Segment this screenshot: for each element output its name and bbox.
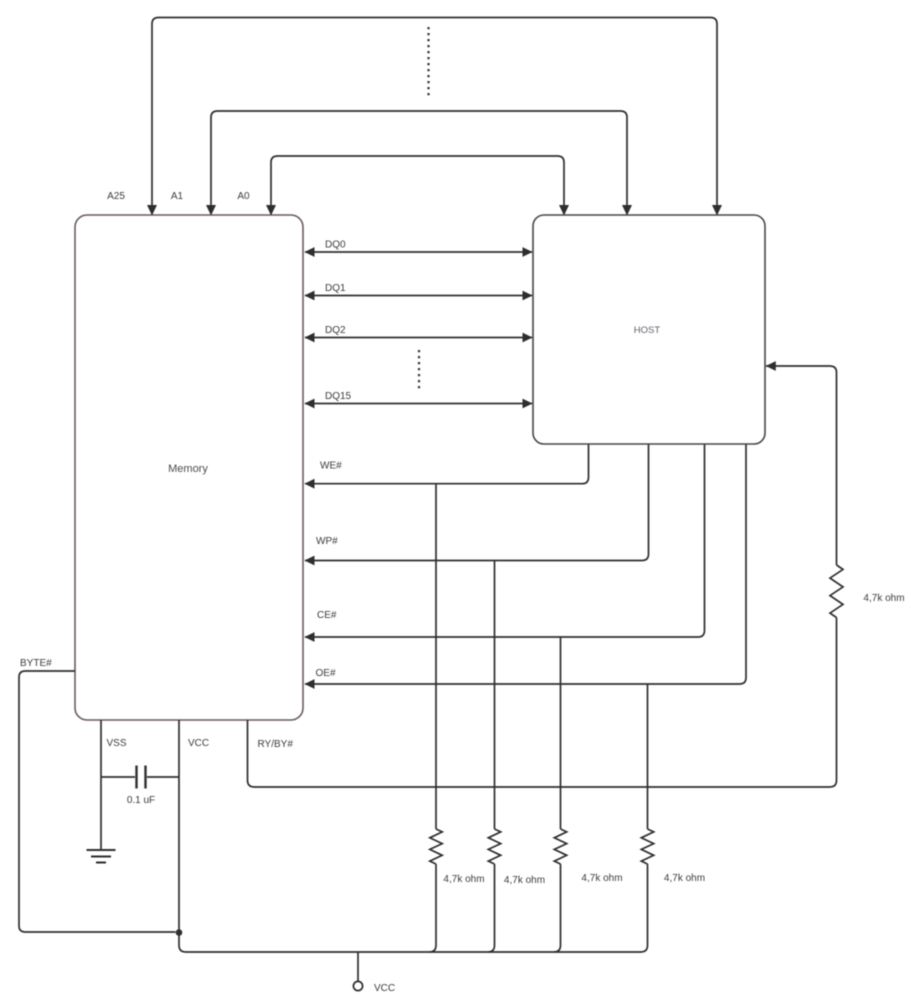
wire R5 to host: [766, 366, 837, 565]
svg-text:A1: A1: [171, 191, 184, 202]
resistor R3 4,7k ohm: [560, 637, 562, 829]
svg-text:Memory: Memory: [168, 463, 208, 475]
wire A1: [211, 111, 627, 214]
svg-text:A25: A25: [107, 191, 125, 202]
svg-text:4,7k ohm: 4,7k ohm: [581, 873, 622, 884]
svg-text:BYTE#: BYTE#: [20, 658, 52, 669]
wire RY/BY#: [248, 618, 837, 788]
memory U1: [75, 215, 303, 720]
resistor R2 4,7k ohm: [494, 561, 496, 830]
wire VSS: [100, 720, 102, 850]
wire WP#: [305, 445, 649, 561]
wire DQ1: [305, 295, 532, 297]
svg-text:0.1 uF: 0.1 uF: [127, 795, 155, 806]
svg-text:DQ2: DQ2: [325, 325, 346, 336]
wire BYTE#: [19, 671, 176, 932]
wire VCC pin to bus: [179, 720, 641, 952]
svg-text:4,7k ohm: 4,7k ohm: [664, 873, 705, 884]
svg-text:DQ1: DQ1: [325, 283, 346, 294]
VCC terminal: [357, 952, 359, 981]
wire CE#: [305, 445, 705, 638]
svg-text:OE#: OE#: [316, 668, 336, 679]
svg-text:4,7k ohm: 4,7k ohm: [443, 874, 484, 885]
ellipsis dots (DQ bus continuation): [418, 350, 420, 391]
svg-text:DQ0: DQ0: [325, 240, 346, 251]
ellipsis dots (address bus continuation): [427, 27, 429, 96]
wire OE#: [305, 445, 746, 685]
svg-text:DQ15: DQ15: [325, 391, 352, 402]
svg-text:CE#: CE#: [317, 610, 337, 621]
resistor R5 4,7k ohm: [830, 565, 843, 618]
svg-text:RY/BY#: RY/BY#: [258, 739, 294, 750]
capacitor C1 0.1 uF: [101, 776, 179, 778]
wire DQ2: [305, 337, 532, 339]
resistor R4 4,7k ohm: [647, 684, 649, 829]
node VCC junction: [176, 929, 183, 936]
svg-text:4,7k ohm: 4,7k ohm: [504, 875, 545, 886]
svg-text:WP#: WP#: [316, 536, 338, 547]
svg-text:4,7k ohm: 4,7k ohm: [863, 593, 904, 604]
wire DQ0: [305, 251, 532, 253]
wire A0: [271, 156, 564, 214]
wire WE#: [305, 445, 589, 484]
host U2: [533, 215, 765, 444]
resistor R1 4,7k ohm: [435, 484, 437, 829]
svg-text:A0: A0: [237, 191, 250, 202]
svg-text:VCC: VCC: [188, 738, 209, 749]
wire DQ15: [305, 403, 532, 405]
svg-text:VCC: VCC: [374, 983, 395, 994]
ground: [87, 850, 116, 863]
svg-text:HOST: HOST: [634, 325, 661, 336]
wire A25: [152, 18, 717, 215]
svg-text:WE#: WE#: [320, 461, 342, 472]
svg-text:VSS: VSS: [107, 738, 127, 749]
